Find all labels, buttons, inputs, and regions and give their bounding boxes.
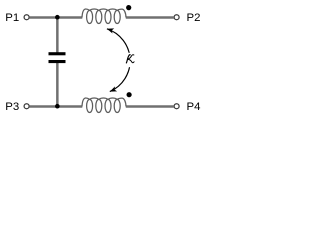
junction node B <box>55 104 60 109</box>
wire P1 to node A to L1 <box>29 16 82 19</box>
label kappa <box>126 55 134 63</box>
junction node A <box>55 15 60 20</box>
inductor L2 (bottom coil) <box>82 98 126 113</box>
terminal P4 <box>174 104 179 109</box>
terminal P2 <box>174 15 179 20</box>
terminal P3 <box>24 104 29 109</box>
svg-text:P1: P1 <box>5 12 19 24</box>
polarity dot of L2 <box>127 92 132 97</box>
capacitor top plate <box>49 52 66 55</box>
coupling arrowhead bottom <box>110 86 117 91</box>
wire node A to capacitor <box>56 17 59 52</box>
svg-text:P3: P3 <box>5 101 19 113</box>
halo behind kappa label <box>121 53 135 67</box>
wire L1 to P2 <box>126 16 174 19</box>
inductor L1 (top coil) <box>82 9 126 24</box>
svg-text:P2: P2 <box>187 12 201 24</box>
svg-text:P4: P4 <box>187 101 201 113</box>
wire L2 to P4 <box>126 105 174 108</box>
terminal P1 <box>24 15 29 20</box>
coupling arrowhead top <box>107 28 114 33</box>
capacitor bottom plate <box>49 60 66 63</box>
polarity dot of L1 <box>126 5 131 10</box>
wire P3 to node B <box>29 105 82 108</box>
wire capacitor to node B <box>56 63 59 106</box>
coupling arrow arc <box>107 29 130 92</box>
